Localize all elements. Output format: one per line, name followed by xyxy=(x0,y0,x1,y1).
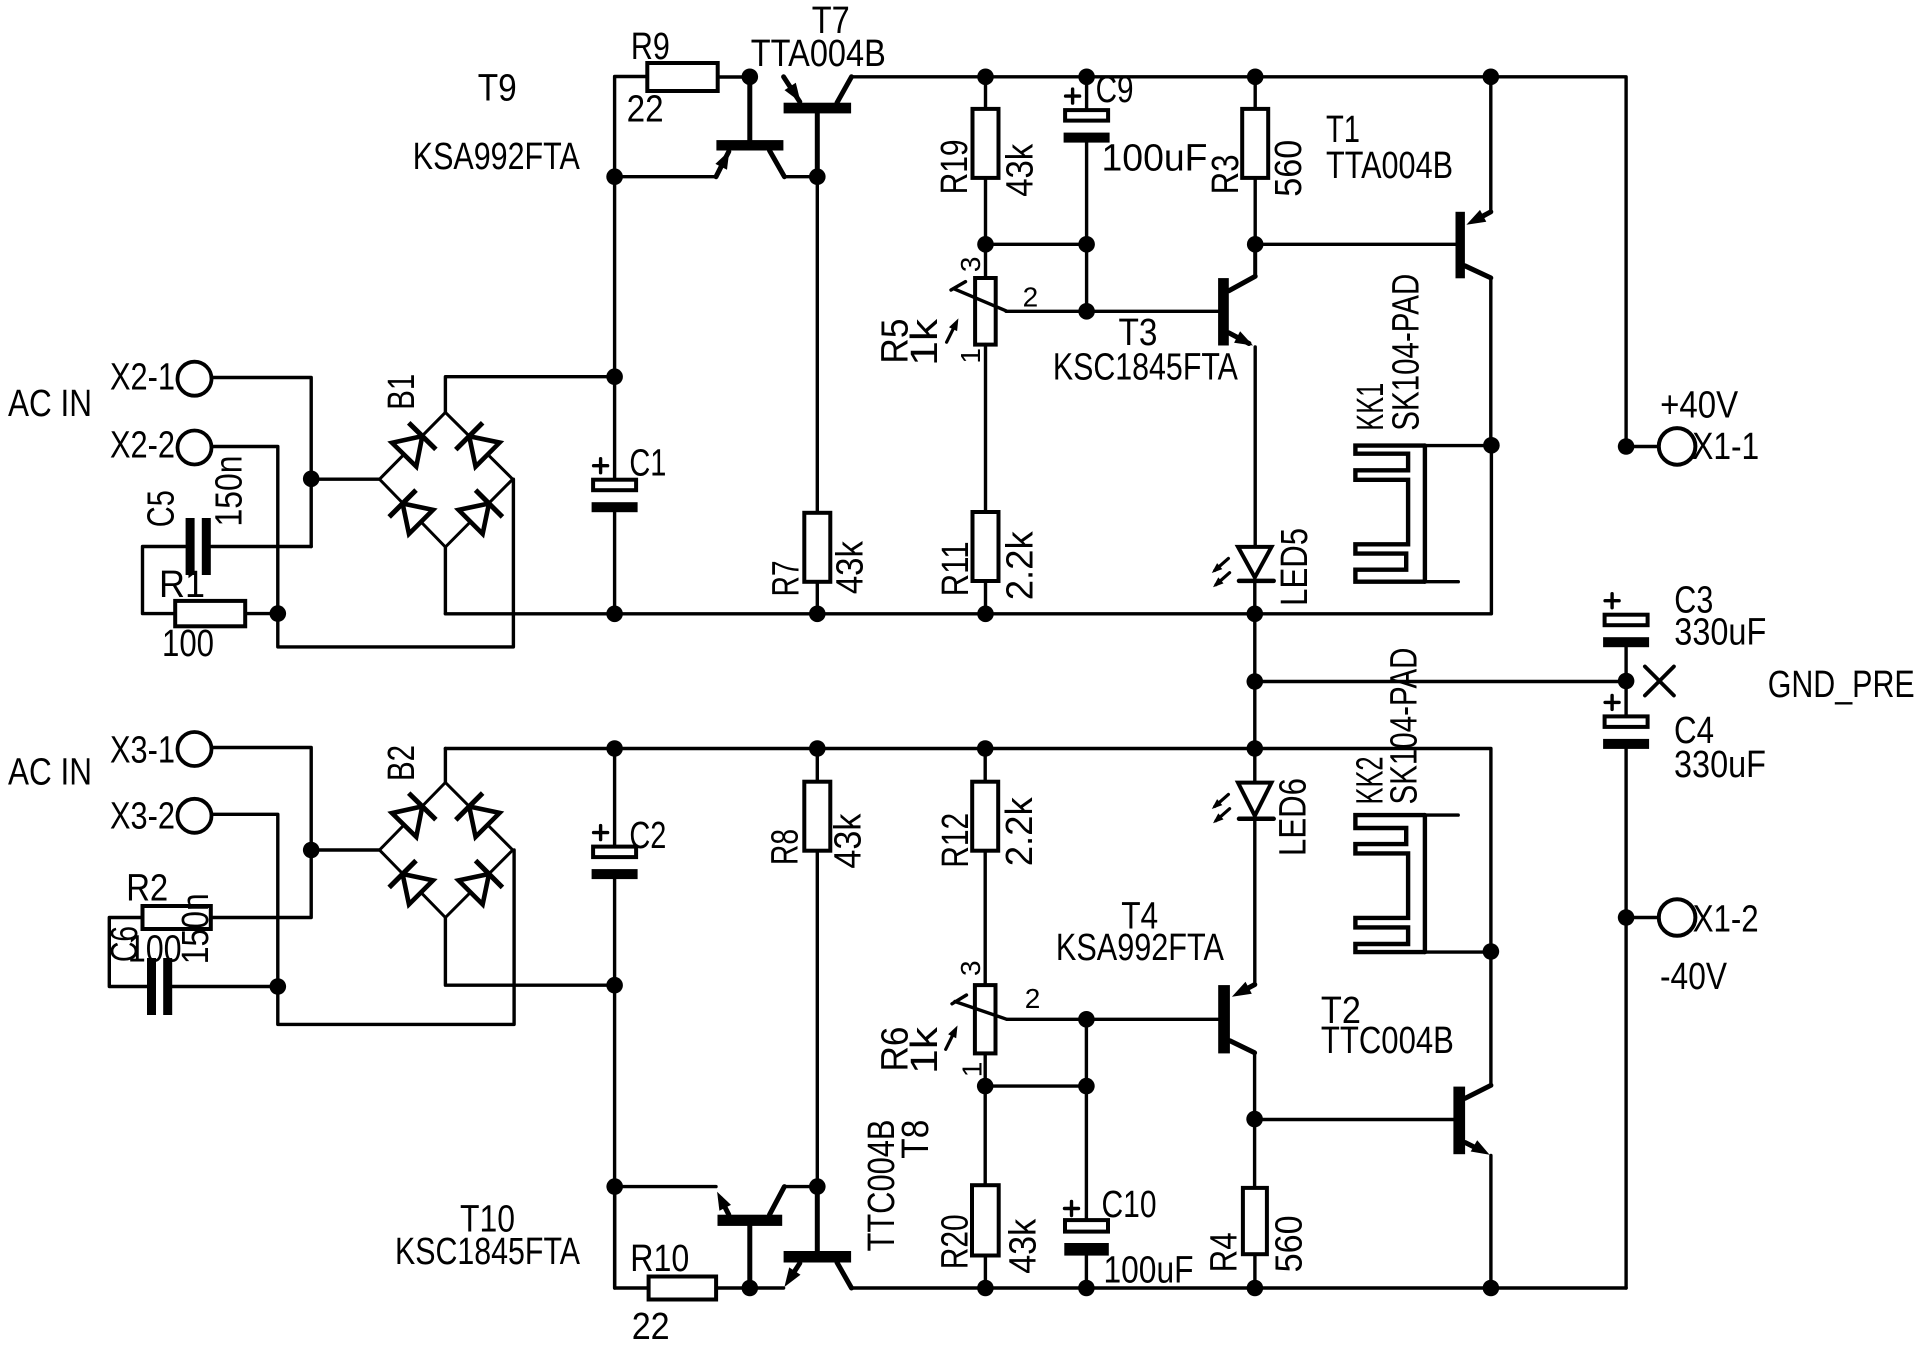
diode B2 D4 xyxy=(457,861,502,906)
wire to B1 left vertex xyxy=(311,478,379,481)
junction rail/C9 xyxy=(1078,69,1095,86)
wire X2-1 to B1 left xyxy=(212,378,312,547)
svg-text:X1-1: X1-1 xyxy=(1692,426,1759,468)
transistor T1 xyxy=(1456,212,1465,278)
wire R6 wiper to T4 base xyxy=(1007,1018,1218,1021)
wire T9 collector xyxy=(784,175,817,178)
diode B1 D4 xyxy=(457,490,502,535)
wire T9 emitter to raw xyxy=(615,175,716,178)
svg-text:R19: R19 xyxy=(934,139,976,194)
resistor R3 xyxy=(1242,109,1268,178)
svg-text:X2-1: X2-1 xyxy=(110,357,175,399)
diode B2 D3 xyxy=(389,861,434,906)
svg-text:X1-2: X1-2 xyxy=(1693,899,1759,941)
junction C9 minus xyxy=(1078,236,1095,253)
wire X3-2 to B2 right xyxy=(278,850,514,1024)
wire B2 minus output xyxy=(445,918,614,986)
terminal X2-1 xyxy=(178,362,212,396)
svg-text:X3-1: X3-1 xyxy=(110,730,175,772)
wire X3-1 to B2 left xyxy=(211,748,311,918)
terminal X3-2 xyxy=(178,799,212,833)
transistor T3 xyxy=(1218,278,1229,345)
led LED5 xyxy=(1238,547,1272,578)
wire to X1-2 xyxy=(1626,916,1659,919)
svg-text:R9: R9 xyxy=(631,26,670,68)
svg-text:LED6: LED6 xyxy=(1273,778,1315,856)
svg-text:2: 2 xyxy=(1025,983,1041,1014)
svg-text:100uF: 100uF xyxy=(1104,1249,1194,1291)
wire R19 bottom xyxy=(984,178,987,244)
wire B1 plus output xyxy=(445,377,614,413)
wire X2-2 down xyxy=(212,447,278,614)
wire R6 bottom xyxy=(984,1053,987,1086)
resistor R20 xyxy=(972,1185,999,1255)
svg-text:TTC004B: TTC004B xyxy=(1321,1020,1454,1062)
svg-text:3: 3 xyxy=(955,257,986,273)
svg-text:560: 560 xyxy=(1268,140,1310,197)
junction C10/wiper wire xyxy=(1078,1011,1095,1028)
junction R4/rail xyxy=(1247,1280,1264,1297)
junction R11/bus xyxy=(977,606,994,623)
junction LED5/bus xyxy=(1247,606,1264,623)
capacitor C2 xyxy=(594,831,608,834)
resistor R9 xyxy=(647,63,717,91)
capacitor C9 xyxy=(1066,94,1080,97)
wire T4 collector to R4 xyxy=(1253,1119,1256,1188)
diode B2 D1 xyxy=(391,793,436,838)
wire C4 to X1-2 xyxy=(1624,749,1627,918)
svg-text:T8: T8 xyxy=(895,1120,937,1159)
junction T2 emitter/rail xyxy=(1483,1280,1500,1297)
svg-text:SK104-PAD: SK104-PAD xyxy=(1384,648,1426,805)
wire R3 bottom xyxy=(1253,178,1256,244)
capacitor C3 xyxy=(1605,599,1619,602)
resistor R12 xyxy=(972,782,998,851)
svg-text:B1: B1 xyxy=(381,374,423,410)
wire R8 to T8 base xyxy=(816,851,819,1187)
capacitor C6 xyxy=(147,958,156,1015)
junction T9 emitter wire xyxy=(606,168,623,185)
capacitor C1 xyxy=(594,464,608,467)
svg-text:+40V: +40V xyxy=(1660,385,1739,427)
svg-text:KSA992FTA: KSA992FTA xyxy=(1056,927,1225,969)
junction X2-1/B1 xyxy=(303,471,320,488)
junction bus/C2 xyxy=(606,740,623,757)
junction C10/rail xyxy=(1078,1280,1095,1297)
svg-text:KSA992FTA: KSA992FTA xyxy=(413,136,581,178)
wire C5 right plate xyxy=(212,545,312,548)
wire R1 right xyxy=(245,612,278,615)
resistor R2 xyxy=(143,906,211,929)
wire T10 emitter wire xyxy=(615,1185,716,1188)
junction C9/wiper wire xyxy=(1078,303,1095,320)
wire R19 to C9 xyxy=(986,243,1087,246)
svg-text:100uF: 100uF xyxy=(1102,138,1208,180)
svg-text:43k: 43k xyxy=(829,540,871,594)
transistor T10 xyxy=(718,1215,783,1226)
svg-text:22: 22 xyxy=(627,88,664,130)
svg-text:1: 1 xyxy=(957,1062,988,1078)
wire C1 to bus xyxy=(613,512,616,614)
svg-text:X2-2: X2-2 xyxy=(110,425,175,467)
wire T7 base to R7 xyxy=(816,177,819,513)
junction bus/LED6 xyxy=(1247,740,1264,757)
heatsink KK1 xyxy=(1355,446,1425,582)
wire to X1-1 xyxy=(1626,445,1659,448)
svg-text:R10: R10 xyxy=(630,1238,689,1280)
junction R7/bus xyxy=(809,606,826,623)
wire C10 top xyxy=(1085,1019,1088,1220)
wire to C10 xyxy=(985,1084,1086,1087)
wire X3-2 down xyxy=(212,814,278,986)
wire to T8 emitter xyxy=(750,1286,784,1289)
svg-text:TTA004B: TTA004B xyxy=(751,33,886,75)
svg-text:43k: 43k xyxy=(828,813,870,869)
wire bottom rail left xyxy=(615,1187,649,1288)
wire C9 top xyxy=(1085,77,1088,110)
wire R10 right xyxy=(716,1286,750,1289)
terminal X1-1 xyxy=(1659,428,1696,465)
junction T8 base/T10 collector xyxy=(809,1178,826,1195)
svg-text:330uF: 330uF xyxy=(1674,611,1766,653)
wire C2 bottom xyxy=(613,879,616,1288)
transistor T7 xyxy=(784,103,852,114)
heatsink KK2 xyxy=(1355,815,1425,952)
junction R9/T9/T7 xyxy=(742,69,759,86)
diode B1 D3 xyxy=(389,490,434,535)
svg-text:T9: T9 xyxy=(478,67,517,109)
node GND_PRE cross xyxy=(1645,667,1674,696)
capacitor C5 xyxy=(186,518,195,575)
svg-text:KSC1845FTA: KSC1845FTA xyxy=(395,1231,581,1273)
transistor T4 xyxy=(1218,985,1230,1053)
svg-text:R20: R20 xyxy=(935,1214,977,1269)
resistor R10 xyxy=(649,1277,717,1300)
svg-text:100: 100 xyxy=(162,623,214,665)
led LED6 xyxy=(1253,749,1256,783)
wire GND_PRE line xyxy=(1255,680,1626,683)
svg-text:B2: B2 xyxy=(381,745,423,781)
svg-text:R11: R11 xyxy=(935,541,977,596)
wire to B2 left vertex xyxy=(311,848,379,851)
junction R3/T3/T1 base xyxy=(1247,236,1264,253)
wire C9 bottom xyxy=(1085,143,1088,312)
junction GND/LED column xyxy=(1247,673,1264,690)
wire R7 to bus xyxy=(816,582,819,614)
svg-text:R3: R3 xyxy=(1205,154,1247,194)
wire C5 left to R1 xyxy=(143,547,186,614)
svg-text:R7: R7 xyxy=(765,560,807,596)
wire top rail xyxy=(852,77,1627,447)
wire R3 top xyxy=(1253,77,1256,109)
junction rail/X1-2 xyxy=(1618,909,1635,926)
capacitor C10 xyxy=(1065,1207,1079,1210)
wire bottom supply bus xyxy=(445,749,1491,1086)
svg-text:C2: C2 xyxy=(629,815,666,857)
junction T7 base/R7 xyxy=(809,168,826,185)
resistor R11 xyxy=(973,512,999,581)
wire C3 bottom xyxy=(1624,647,1627,681)
junction T1 collector/KK1 xyxy=(1483,437,1500,454)
junction T4 collector/T2 base xyxy=(1246,1111,1263,1128)
wire R5 wiper to T3 base xyxy=(1006,310,1218,313)
svg-text:150n: 150n xyxy=(175,893,217,964)
wire R20 bottom xyxy=(984,1256,987,1289)
svg-text:AC IN: AC IN xyxy=(8,752,92,794)
wire bottom rail right xyxy=(852,1286,1627,1289)
svg-text:1k: 1k xyxy=(904,1026,946,1074)
wire C4 top xyxy=(1624,681,1627,716)
svg-text:SK104-PAD: SK104-PAD xyxy=(1385,274,1427,431)
junction R1/X2-2 xyxy=(270,605,287,622)
svg-text:R8: R8 xyxy=(765,829,807,865)
svg-text:TTA004B: TTA004B xyxy=(1326,145,1453,187)
junction GND_PRE xyxy=(1618,673,1635,690)
wire R2 left to C6 xyxy=(109,918,148,987)
junction rail/R19 xyxy=(977,69,994,86)
wire raw+ column xyxy=(615,77,648,480)
svg-text:C6: C6 xyxy=(104,926,146,962)
svg-text:-40V: -40V xyxy=(1660,956,1728,998)
svg-text:X3-2: X3-2 xyxy=(110,796,175,838)
svg-text:C5: C5 xyxy=(140,490,182,527)
svg-text:150n: 150n xyxy=(209,456,251,527)
wire R5 to R11 xyxy=(984,345,987,512)
resistor R8 xyxy=(804,782,830,851)
wire base of T1 xyxy=(1255,243,1455,246)
transistor T9 xyxy=(716,140,783,150)
junction T2 collector/KK2 xyxy=(1483,943,1500,960)
resistor R1 xyxy=(175,601,245,626)
junction rail/T1 emitter xyxy=(1483,69,1500,86)
transistor T2 xyxy=(1453,1087,1465,1155)
resistor R7 xyxy=(804,513,830,582)
wire R12 top xyxy=(984,749,987,782)
junction bus/R12 xyxy=(977,740,994,757)
svg-text:R4: R4 xyxy=(1203,1232,1245,1272)
svg-text:R1: R1 xyxy=(159,564,205,606)
wire top supply bus xyxy=(445,445,1491,614)
svg-text:C10: C10 xyxy=(1102,1184,1157,1226)
wire R20 top xyxy=(984,1086,987,1185)
junction bus/R8 xyxy=(809,740,826,757)
junction R19/R5 xyxy=(977,236,994,253)
wire R11 bottom xyxy=(984,581,987,614)
wire R9 right xyxy=(718,75,750,78)
junction R10/T10/T8 xyxy=(742,1280,759,1297)
svg-text:2.2k: 2.2k xyxy=(1000,530,1042,600)
terminal X3-1 xyxy=(178,732,212,766)
wire R12 to R6 xyxy=(984,851,987,985)
svg-text:LED5: LED5 xyxy=(1274,528,1316,606)
diode B1 D1 xyxy=(391,423,436,468)
svg-text:KSC1845FTA: KSC1845FTA xyxy=(1053,347,1239,389)
junction rail/X1-1 xyxy=(1618,438,1635,455)
wire C6 right xyxy=(171,985,278,988)
capacitor C4 xyxy=(1605,701,1619,704)
transistor T8 xyxy=(784,1251,852,1263)
diode B1 D2 xyxy=(456,423,501,468)
svg-text:3: 3 xyxy=(955,960,986,976)
wire base of T2 xyxy=(1255,1118,1454,1121)
svg-text:GND_PRE: GND_PRE xyxy=(1768,664,1915,706)
svg-text:2.2k: 2.2k xyxy=(999,796,1041,866)
junction C10 top xyxy=(1078,1078,1095,1095)
svg-text:R2: R2 xyxy=(126,867,168,909)
svg-text:22: 22 xyxy=(632,1306,670,1347)
junction R6/R20/C10 xyxy=(977,1078,994,1095)
potentiometer R5 xyxy=(975,278,996,345)
svg-text:1k: 1k xyxy=(904,318,946,366)
junction X3-1/B2 xyxy=(303,842,320,859)
wire R8 top xyxy=(816,749,819,782)
junction C2/T10 xyxy=(606,1178,623,1195)
wire LED column vertical xyxy=(1253,614,1256,749)
junction B1+/C1 column xyxy=(606,368,623,385)
diode B2 D2 xyxy=(456,793,501,838)
wire X2-2 to B1 right xyxy=(278,479,514,647)
wire T10 collector xyxy=(784,1185,817,1188)
svg-text:C9: C9 xyxy=(1096,69,1134,111)
terminal X2-2 xyxy=(178,431,212,465)
svg-text:43k: 43k xyxy=(1002,1218,1044,1274)
junction B2-/C2 column xyxy=(606,977,623,994)
wire R19 top xyxy=(984,77,987,109)
junction R20/rail xyxy=(977,1280,994,1297)
terminal X1-2 xyxy=(1659,899,1696,936)
svg-text:2: 2 xyxy=(1023,282,1039,313)
junction rail/R3 xyxy=(1247,69,1264,86)
svg-text:43k: 43k xyxy=(1000,143,1042,197)
wire R4 bottom xyxy=(1253,1254,1256,1288)
wire C10 bottom xyxy=(1085,1256,1088,1288)
svg-text:560: 560 xyxy=(1268,1215,1310,1272)
wire C2 top xyxy=(613,749,616,847)
svg-text:330uF: 330uF xyxy=(1674,744,1766,786)
resistor R4 xyxy=(1243,1188,1267,1254)
svg-text:1: 1 xyxy=(955,348,986,364)
rectifier B1 outline xyxy=(380,412,513,547)
svg-text:R12: R12 xyxy=(935,813,977,868)
resistor R19 xyxy=(973,109,999,178)
rectifier B2 outline xyxy=(380,783,513,918)
wire right rail down xyxy=(1624,918,1627,1289)
wire B1 minus output xyxy=(444,547,447,614)
svg-text:C1: C1 xyxy=(629,443,666,485)
junction C1/bus xyxy=(606,606,623,623)
potentiometer R6 xyxy=(975,985,996,1053)
svg-text:AC IN: AC IN xyxy=(8,383,92,425)
junction X3-2/C6 xyxy=(270,978,287,995)
wire B2 plus output xyxy=(444,749,447,783)
